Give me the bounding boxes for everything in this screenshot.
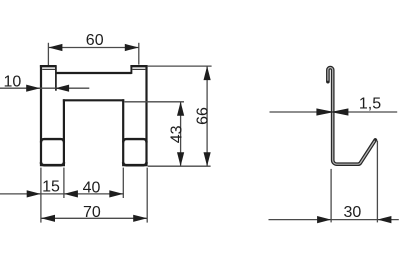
dim 43: dimension line	[180, 102, 182, 166]
side view hook profile: white core line	[328, 68, 375, 165]
svg-text:10: 10	[4, 74, 22, 91]
right leg bottom bend: upper line	[123, 139, 146, 142]
dim 70: right arrow	[133, 215, 147, 222]
dim 70: left arrow	[41, 215, 55, 222]
dim 15: outside arrow pointing right	[27, 190, 41, 197]
dim 40: arrow pointing right at right inner edge	[109, 190, 123, 197]
dim 60: left arrow	[48, 44, 62, 51]
dim 43: middle extension line	[124, 101, 184, 103]
dim 1,5: right arrow	[331, 108, 349, 115]
dim 43: bottom arrow	[177, 152, 184, 166]
bottom extension line at right outer	[146, 168, 148, 223]
dim 1,5: dimension line	[270, 111, 398, 113]
dim 30: dimension line	[269, 219, 399, 221]
dim 60: right arrow	[125, 44, 139, 51]
svg-text:15: 15	[42, 179, 60, 196]
side view hook profile: outer dark stroke	[328, 68, 375, 165]
dim 60: right extension line	[138, 43, 140, 65]
dim 43: top arrow	[177, 102, 184, 116]
U opening top edge	[63, 99, 124, 101]
U opening right edge (right leg inner)	[122, 99, 124, 166]
bottom extension line at left inner	[63, 168, 65, 198]
right leg bottom bend: bottom line	[123, 162, 146, 165]
dim 66: top arrow	[204, 66, 211, 80]
dim 10: dimension line	[0, 87, 89, 89]
U opening left edge (left leg inner)	[63, 99, 65, 166]
svg-text:66: 66	[195, 107, 212, 125]
svg-text:43: 43	[169, 125, 186, 143]
dim 60: dimension line	[48, 47, 138, 49]
dim 10: right-pointing arrow	[26, 85, 40, 92]
svg-text:30: 30	[344, 204, 362, 221]
bottom extension line at left outer	[40, 168, 42, 223]
dim 30: right arrow	[377, 216, 391, 223]
dim 30: left arrow	[317, 216, 331, 223]
dim 66/43: bottom extension line	[148, 165, 211, 167]
right top tab: inner thin edge	[132, 68, 145, 70]
dim 15/40: arrow pointing left at inner edge	[64, 190, 78, 197]
bottom extension line at right inner	[122, 168, 124, 198]
svg-text:60: 60	[86, 32, 104, 49]
dim 66: dimension line	[206, 66, 208, 166]
dim 1,5: left arrow	[316, 108, 334, 115]
svg-text:40: 40	[83, 179, 101, 196]
left leg bottom bend: bottom line	[41, 162, 64, 165]
svg-text:1,5: 1,5	[359, 96, 381, 113]
bracket front view: left outer edge	[40, 65, 42, 166]
dim 30: left extension line	[330, 169, 332, 223]
left top tab: top edge	[40, 65, 56, 67]
dim 30: right extension line	[376, 141, 378, 223]
dim 15/40: dimension line	[0, 193, 124, 195]
bracket front view: right outer edge	[145, 65, 147, 166]
dim 70: dimension line	[41, 217, 147, 219]
left top tab: right edge / extension to 10-dim	[55, 65, 57, 91]
left leg bottom bend: upper line	[41, 139, 64, 142]
right top tab: left edge	[130, 65, 132, 74]
dim 66: top extension line	[148, 65, 212, 67]
dim 60: left extension line	[47, 43, 49, 65]
left top tab: inner thin edge	[42, 68, 55, 70]
top bar upper edge	[56, 72, 132, 74]
right top tab: top edge	[130, 65, 147, 67]
svg-text:70: 70	[83, 204, 101, 221]
dim 10: left-pointing arrow	[55, 85, 69, 92]
dim 66: bottom arrow	[204, 152, 211, 166]
